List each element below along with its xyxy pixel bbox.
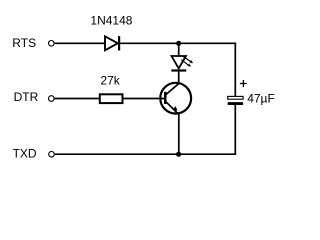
node junction top: [176, 41, 181, 46]
terminal TXD: [49, 151, 55, 157]
wire bottom TXD to corner: [55, 153, 236, 155]
terminal DTR: [49, 96, 55, 102]
node junction bottom: [176, 152, 181, 157]
wire right vertical lower segment: [234, 105, 236, 155]
svg-text:27k: 27k: [100, 74, 120, 88]
wire LED to transistor: [178, 71, 180, 85]
wire DTR terminal to resistor: [55, 98, 99, 100]
terminal RTS: [49, 41, 55, 47]
wire emitter vertical: [178, 115, 180, 155]
LED D2: [171, 56, 193, 71]
wire resistor to transistor base: [123, 98, 164, 100]
wire right vertical upper segment: [234, 43, 236, 97]
svg-text:DTR: DTR: [14, 90, 39, 104]
transistor Q1: [160, 83, 191, 115]
label plus: [240, 80, 247, 87]
svg-text:47µF: 47µF: [247, 91, 275, 105]
diode D1 1N4148: [105, 36, 119, 50]
wire RTS terminal to diode: [55, 42, 105, 44]
svg-text:1N4148: 1N4148: [90, 13, 132, 27]
capacitor C1 47uF: [228, 96, 243, 105]
svg-text:RTS: RTS: [12, 36, 36, 50]
wire junction to LED: [178, 43, 180, 56]
svg-text:TXD: TXD: [13, 147, 37, 161]
resistor R1 27k: [100, 94, 123, 103]
wire diode to top-right corner: [120, 42, 237, 44]
